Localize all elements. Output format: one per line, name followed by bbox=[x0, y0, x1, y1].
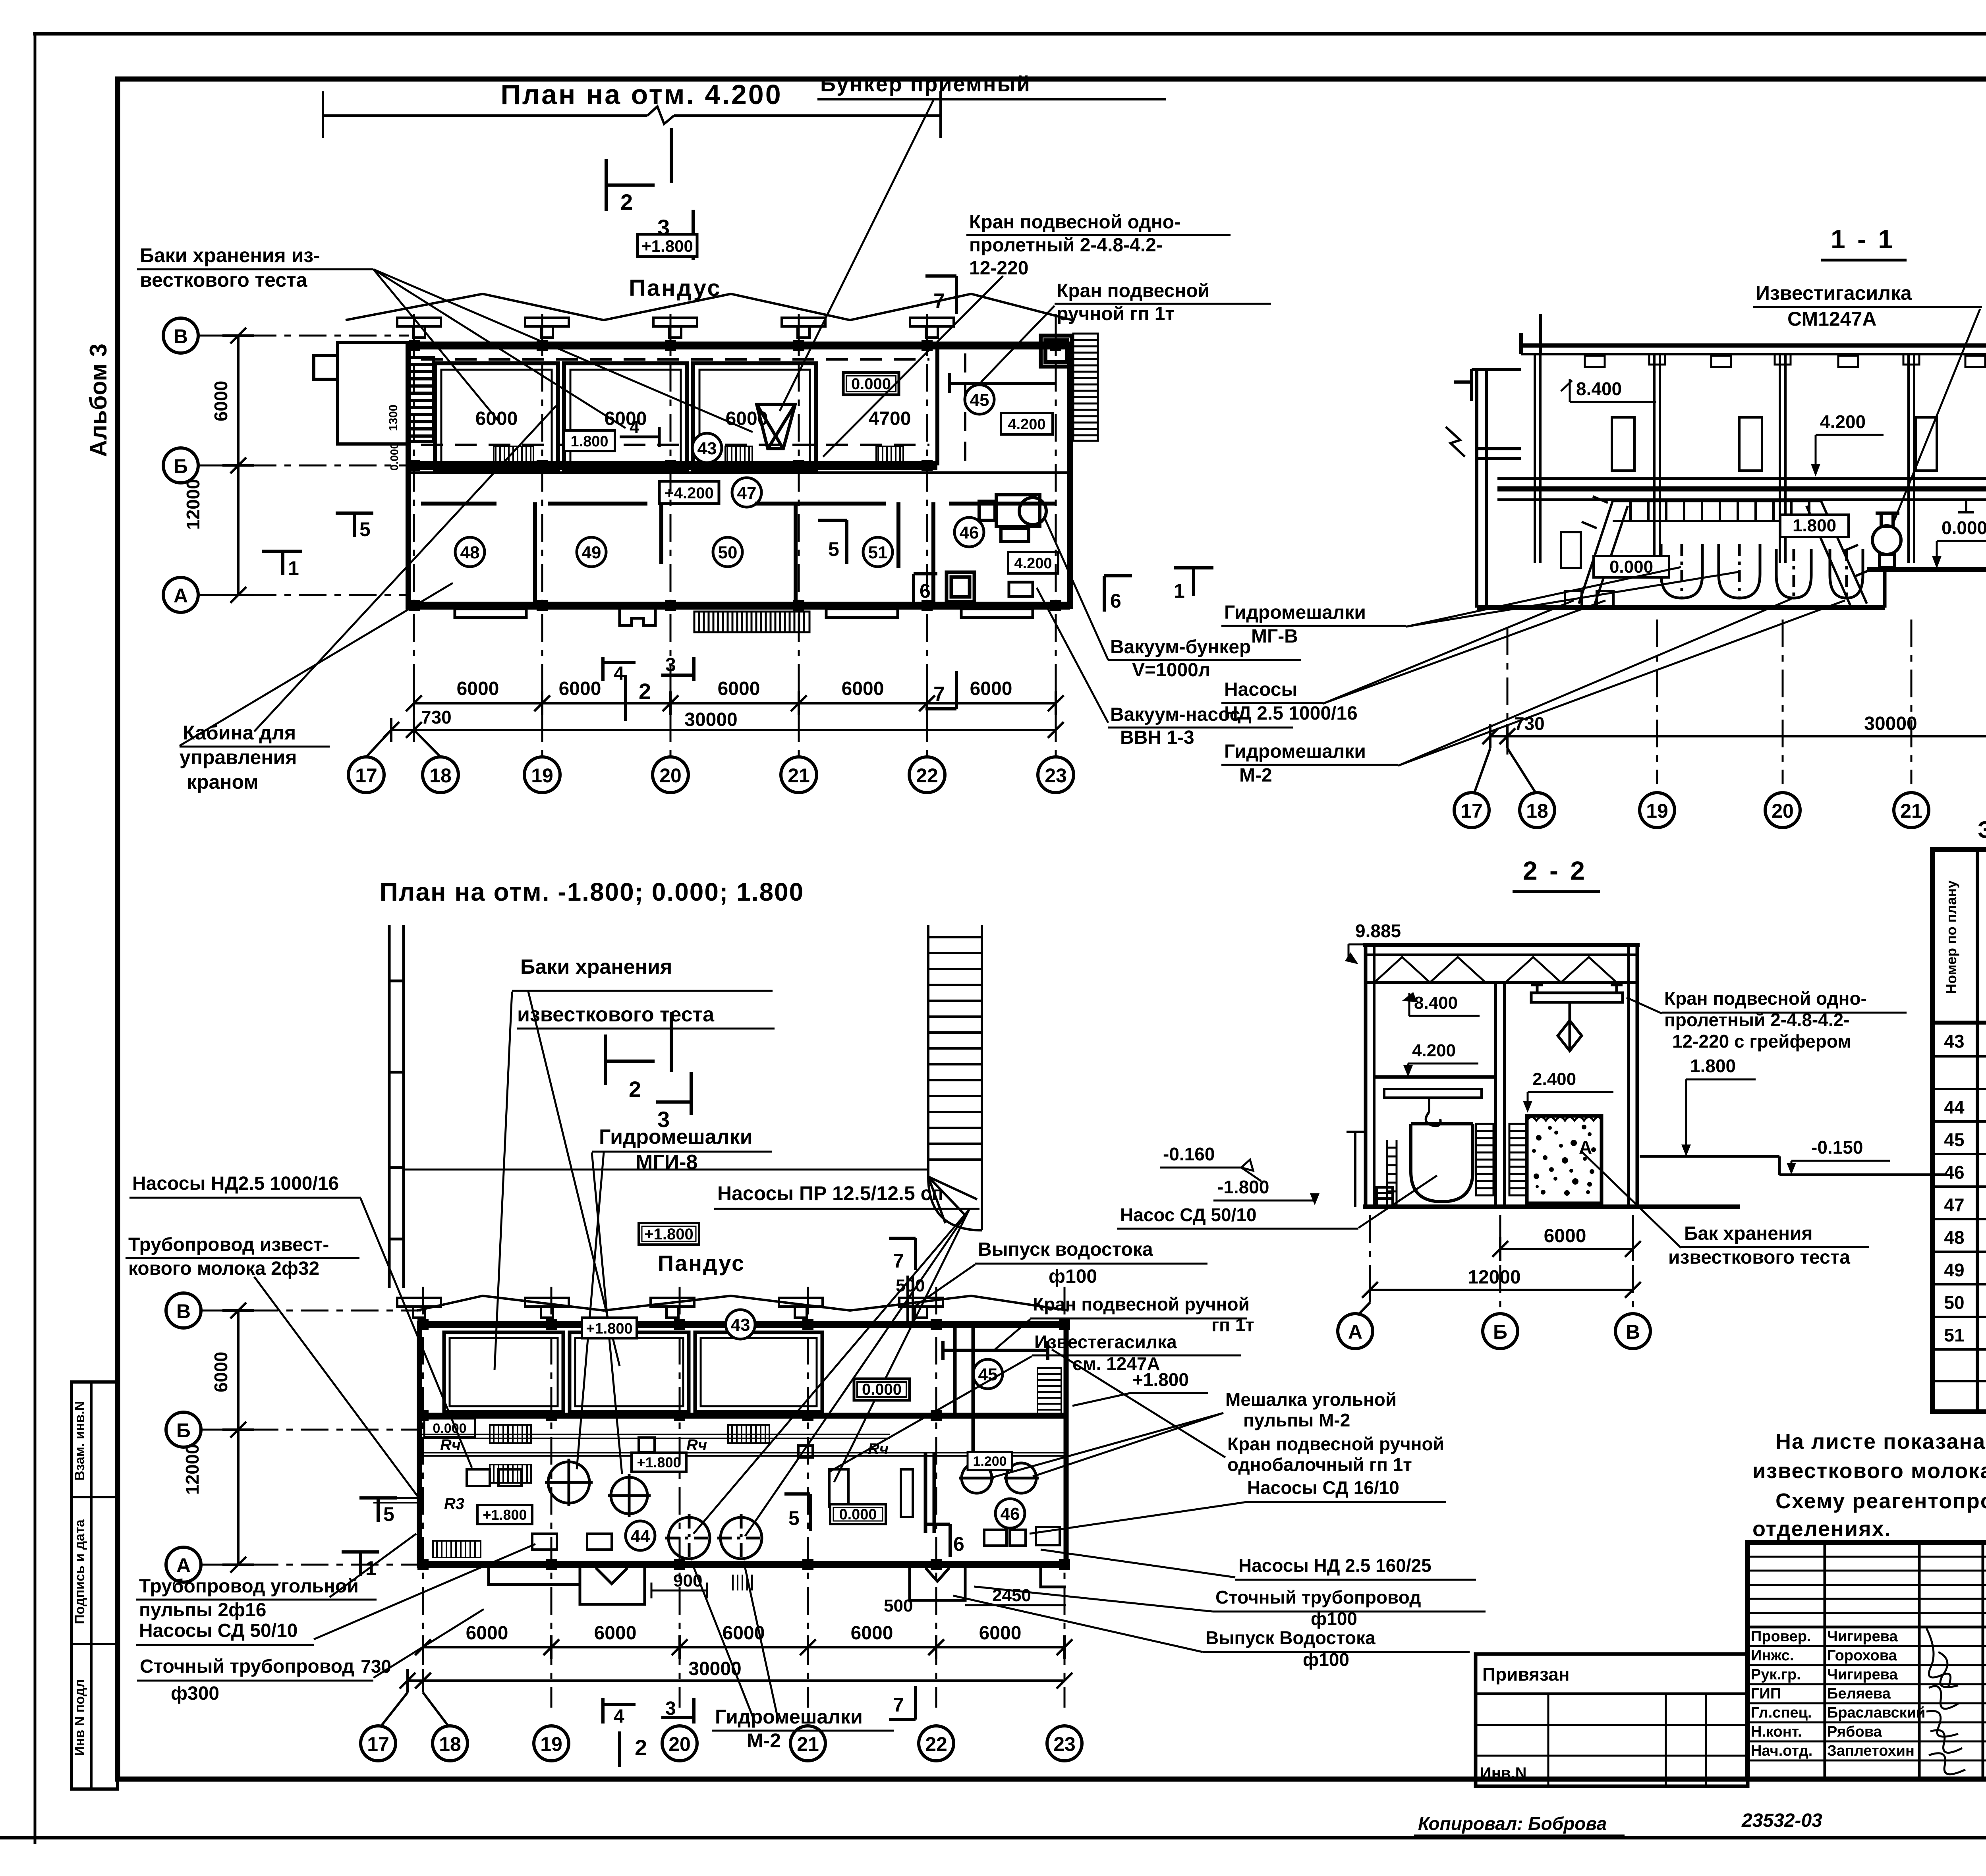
svg-text:45: 45 bbox=[1944, 1129, 1964, 1150]
dims bottom plan: bay dims bbox=[415, 1635, 1072, 1659]
svg-text:48: 48 bbox=[460, 543, 480, 562]
svg-text:Номер по плану: Номер по плану bbox=[1943, 880, 1959, 994]
svg-text:Б: Б bbox=[176, 1419, 191, 1442]
section marks 4 and 3 above dim bbox=[603, 657, 694, 681]
svg-text:Инв N подл: Инв N подл bbox=[72, 1679, 87, 1756]
svg-text:6000: 6000 bbox=[457, 678, 499, 699]
section left annex and wall bbox=[1454, 369, 1521, 608]
svg-text:Кран подвесной: Кран подвесной bbox=[1057, 280, 1209, 301]
svg-text:Насосы НД 2.5 160/25: Насосы НД 2.5 160/25 bbox=[1238, 1555, 1432, 1576]
svg-text:5: 5 bbox=[828, 538, 839, 560]
svg-text:17: 17 bbox=[367, 1733, 389, 1755]
svg-text:4: 4 bbox=[614, 1706, 624, 1727]
svg-text:На листе показана трасса реаге: На листе показана трасса реагентопроводо… bbox=[1775, 1430, 1986, 1453]
svg-text:9.885: 9.885 bbox=[1355, 921, 1401, 941]
section 2-2 walls bbox=[1363, 945, 1740, 1207]
svg-text:Известигасилка: Известигасилка bbox=[1756, 282, 1912, 304]
svg-text:7: 7 bbox=[893, 1250, 904, 1272]
svg-text:17: 17 bbox=[355, 764, 377, 787]
section columns bbox=[1535, 354, 1986, 563]
storage tank 2 (bottom plan) bbox=[570, 1332, 689, 1412]
room circle 43 bbox=[692, 433, 722, 463]
room circle 46 (bottom plan) bbox=[995, 1499, 1025, 1528]
svg-text:ВВН 1-3: ВВН 1-3 bbox=[1120, 727, 1194, 748]
svg-text:6: 6 bbox=[953, 1533, 964, 1555]
4.200 mid bbox=[1811, 411, 1884, 477]
svg-text:Взам. инв.N: Взам. инв.N bbox=[72, 1401, 87, 1480]
svg-text:Насосы СД 16/10: Насосы СД 16/10 bbox=[1247, 1477, 1399, 1498]
bottom annotation: Копировал Боброва bbox=[1414, 1813, 1625, 1835]
0.000 basement bbox=[1594, 556, 1669, 577]
svg-text:6000: 6000 bbox=[211, 381, 231, 421]
svg-text:Нач.отд.: Нач.отд. bbox=[1751, 1743, 1812, 1759]
label 9.885 bbox=[1345, 921, 1436, 964]
svg-text:А: А bbox=[176, 1554, 191, 1577]
label: Баки хранения известкового теста (bottom plan) bbox=[517, 955, 715, 1026]
platform at 1.800 with railing bbox=[1579, 496, 1869, 608]
label: Кран подвесной ручной гп 1т bbox=[1033, 1294, 1254, 1335]
label: Гидромешалки МГ-В (left) bbox=[1224, 602, 1366, 647]
grid circle 22 (top plan) bbox=[909, 757, 945, 793]
dark equipment square room45 bbox=[1041, 336, 1072, 367]
section roof bbox=[1521, 314, 1986, 354]
svg-text:весткового теста: весткового теста bbox=[140, 269, 308, 291]
vertical dimension line left of top plan bbox=[222, 328, 254, 603]
svg-text:Н.конт.: Н.конт. bbox=[1751, 1724, 1802, 1740]
receiving hopper funnel bbox=[757, 404, 795, 449]
letter circle В (bottom plan) bbox=[166, 1293, 201, 1328]
svg-text:Насосы СД 50/10: Насосы СД 50/10 bbox=[139, 1620, 298, 1641]
svg-text:50: 50 bbox=[1944, 1292, 1964, 1313]
svg-text:5: 5 bbox=[359, 518, 371, 540]
circle leaders 17,18 (bottom plan) bbox=[381, 1693, 449, 1727]
svg-text:В: В bbox=[1626, 1321, 1640, 1343]
svg-text:Заплетохин: Заплетохин bbox=[1827, 1743, 1915, 1759]
svg-text:Кран подвесной одно-: Кран подвесной одно- bbox=[1664, 988, 1867, 1009]
crane beam room45 (bottom) bbox=[943, 1341, 1048, 1360]
svg-text:23: 23 bbox=[1045, 764, 1067, 787]
label: Трубопровод угольной пульпы 2ф16 bbox=[139, 1576, 359, 1621]
left ramp wall above plan bbox=[389, 925, 404, 1288]
svg-text:21: 21 bbox=[797, 1733, 819, 1755]
svg-text:Горохова: Горохова bbox=[1827, 1647, 1897, 1664]
svg-text:46: 46 bbox=[960, 523, 979, 542]
left bay mid floor bbox=[1374, 1075, 1495, 1079]
svg-text:+1.800: +1.800 bbox=[641, 237, 693, 255]
svg-text:Кран подвесной ручной: Кран подвесной ручной bbox=[1227, 1434, 1444, 1454]
leaders to tanks bbox=[373, 269, 753, 432]
stairs hatch right of middle wall bbox=[1509, 1124, 1527, 1195]
svg-text:Известегасилка: Известегасилка bbox=[1034, 1332, 1177, 1352]
svg-text:пульпы 2ф16: пульпы 2ф16 bbox=[139, 1600, 266, 1621]
svg-text:0.000: 0.000 bbox=[851, 375, 891, 393]
svg-text:44: 44 bbox=[631, 1527, 650, 1546]
break mark lightning bbox=[1446, 427, 1465, 457]
grid vertical dash-dot lines top plan bbox=[414, 314, 1056, 757]
svg-text:6000: 6000 bbox=[726, 408, 768, 429]
grid circle 20 (top plan) bbox=[653, 757, 688, 793]
svg-text:Б: Б bbox=[174, 455, 188, 477]
svg-text:22: 22 bbox=[916, 764, 938, 787]
svg-text:Подпись и дата: Подпись и дата bbox=[72, 1519, 87, 1624]
grid circles (bottom plan) bbox=[361, 1726, 1082, 1761]
svg-text:12000: 12000 bbox=[183, 479, 203, 530]
svg-text:43: 43 bbox=[1944, 1031, 1964, 1052]
roof truss zigzag bbox=[1374, 957, 1617, 982]
boxed 1.200 bbox=[968, 1452, 1012, 1470]
svg-text:4.200: 4.200 bbox=[1008, 416, 1045, 433]
table rows bbox=[1944, 1031, 1986, 1345]
svg-text:1.800: 1.800 bbox=[1793, 516, 1836, 535]
bottom plan building walls bbox=[417, 1324, 1068, 1568]
lime paste storage tank 3 bbox=[693, 363, 816, 470]
svg-text:3: 3 bbox=[665, 654, 676, 676]
svg-text:18: 18 bbox=[429, 764, 452, 787]
svg-text:Провер.: Провер. bbox=[1751, 1628, 1811, 1645]
svg-text:А: А bbox=[1348, 1321, 1362, 1343]
svg-text:Чигирева: Чигирева bbox=[1827, 1628, 1898, 1645]
boxed level 4.200 room46 bbox=[1008, 552, 1058, 573]
svg-text:6000: 6000 bbox=[970, 678, 1012, 699]
svg-text:СМ1247А: СМ1247А bbox=[1787, 308, 1876, 330]
room circle 51 bbox=[863, 537, 893, 567]
dim 900 bbox=[651, 1583, 707, 1598]
svg-text:Рябова: Рябова bbox=[1827, 1724, 1882, 1740]
svg-text:12000: 12000 bbox=[1468, 1267, 1520, 1288]
label: Кран подвесной однопролетный с грейфером bbox=[1664, 988, 1867, 1052]
middle wall bbox=[1495, 982, 1505, 1207]
left bay crane beam with hook bbox=[1384, 1089, 1482, 1126]
svg-text:5: 5 bbox=[788, 1507, 800, 1529]
svg-text:22: 22 bbox=[925, 1733, 947, 1755]
crane rail brackets under roof bbox=[1585, 356, 1986, 367]
svg-text:0.000: 0.000 bbox=[862, 1381, 902, 1398]
svg-text:43: 43 bbox=[731, 1315, 750, 1335]
section mark 1 (left) bbox=[262, 551, 302, 575]
svg-text:730: 730 bbox=[361, 1656, 391, 1677]
svg-text:Сточный трубопровод: Сточный трубопровод bbox=[140, 1656, 354, 1677]
svg-text:730: 730 bbox=[421, 707, 452, 728]
right bay crane beam bbox=[1531, 985, 1623, 1051]
label: Выпуск водостока ф100 (top right of plan) bbox=[978, 1239, 1153, 1287]
svg-text:2: 2 bbox=[629, 1077, 641, 1102]
column squares bottom plan bbox=[417, 1319, 1070, 1570]
small equip under 4.200 bbox=[1009, 582, 1033, 596]
svg-text:3: 3 bbox=[665, 1698, 676, 1719]
svg-text:30000: 30000 bbox=[684, 709, 737, 730]
svg-text:Насос СД 50/10: Насос СД 50/10 bbox=[1120, 1204, 1257, 1225]
room circle 47 bbox=[732, 478, 761, 507]
svg-text:20: 20 bbox=[668, 1733, 691, 1755]
svg-text:Альбом 3: Альбом 3 bbox=[85, 344, 112, 457]
section mark 3 (top) bbox=[656, 210, 693, 260]
dashed partition room45 bbox=[964, 353, 966, 471]
svg-text:500: 500 bbox=[896, 1276, 925, 1295]
svg-text:М-2: М-2 bbox=[1239, 765, 1272, 786]
svg-text:Кран подвесной одно-: Кран подвесной одно- bbox=[969, 212, 1180, 233]
svg-text:Кран подвесной ручной: Кран подвесной ручной bbox=[1033, 1294, 1250, 1314]
basement small parts under 2-2 bbox=[1347, 1132, 1393, 1207]
svg-text:49: 49 bbox=[1944, 1260, 1964, 1280]
svg-text:4: 4 bbox=[630, 417, 639, 437]
section 1-1 grid dash-dot verticals bbox=[1507, 620, 1986, 784]
basement U vessels (hydro mixers) bbox=[1661, 544, 1863, 598]
svg-text:30000: 30000 bbox=[688, 1658, 741, 1679]
intermediate floor at +4.200 bbox=[1497, 479, 1986, 500]
boxed level 0.000 room45 bbox=[843, 372, 899, 395]
svg-text:1300: 1300 bbox=[387, 405, 400, 431]
svg-text:-1.800: -1.800 bbox=[1217, 1177, 1269, 1197]
upstairs equipment rectangles bbox=[1612, 417, 1986, 471]
tank room bottom wall bbox=[408, 461, 937, 470]
svg-text:Баки хранения из-: Баки хранения из- bbox=[140, 244, 320, 266]
svg-text:Выпуск Водостока: Выпуск Водостока bbox=[1206, 1627, 1376, 1648]
svg-text:46: 46 bbox=[1001, 1504, 1020, 1524]
storage tank 3 (bottom plan) bbox=[695, 1332, 822, 1412]
tank dimension texts bbox=[475, 408, 911, 429]
svg-text:6000: 6000 bbox=[723, 1623, 765, 1644]
svg-text:6000: 6000 bbox=[466, 1623, 508, 1644]
svg-text:В: В bbox=[176, 1300, 191, 1322]
dock notches below bottom wall bbox=[489, 1568, 1066, 1604]
svg-text:+1.800: +1.800 bbox=[644, 1226, 693, 1243]
svg-text:1.200: 1.200 bbox=[973, 1454, 1007, 1469]
grid circle 18 (top plan) bbox=[423, 757, 458, 793]
svg-text:Привязан: Привязан bbox=[1482, 1664, 1570, 1685]
svg-text:1: 1 bbox=[365, 1557, 377, 1579]
svg-text:47: 47 bbox=[737, 483, 757, 503]
svg-text:20: 20 bbox=[1772, 800, 1794, 822]
label: Вакуум-насос ВВН 1-3 bbox=[1110, 704, 1240, 748]
grid horizontal dash-dot (letters, bottom plan) bbox=[201, 1310, 421, 1565]
section marks 4,3 (bottom plan, bottom) bbox=[603, 1698, 694, 1724]
8.400 left bbox=[1561, 378, 1656, 402]
boxed +1.800 mid bbox=[632, 1453, 686, 1472]
svg-text:Сточный трубопровод: Сточный трубопровод bbox=[1215, 1587, 1421, 1608]
ground line right of 2-2 bbox=[1640, 1156, 1946, 1175]
svg-text:Пандус: Пандус bbox=[658, 1251, 745, 1276]
dark corner equipment room46 bbox=[947, 572, 974, 602]
svg-text:Баки хранения: Баки хранения bbox=[520, 955, 672, 979]
svg-text:Гидромешалки: Гидромешалки bbox=[1224, 602, 1366, 623]
svg-text:7: 7 bbox=[893, 1694, 904, 1716]
label: Сточный трубопровод ф300 bbox=[140, 1656, 354, 1704]
svg-text:49: 49 bbox=[582, 543, 601, 562]
pipe labels bbox=[440, 1436, 889, 1513]
svg-text:21: 21 bbox=[788, 764, 810, 787]
svg-text:2 - 2: 2 - 2 bbox=[1523, 856, 1587, 885]
svg-text:20: 20 bbox=[659, 764, 682, 787]
svg-text:краном: краном bbox=[187, 771, 258, 793]
section mark 6 (interior) bbox=[914, 574, 937, 608]
room circle 50 bbox=[713, 537, 742, 567]
grid circle leaders 17,18 bbox=[366, 730, 440, 757]
svg-text:12-220: 12-220 bbox=[969, 258, 1028, 279]
2.400 label bbox=[1523, 1069, 1613, 1113]
label: Трубопровод известкового молока 2ф32 bbox=[128, 1234, 329, 1279]
svg-text:Бункер приемный: Бункер приемный bbox=[820, 72, 1031, 96]
boxed 0.000 small left bbox=[424, 1419, 475, 1437]
svg-text:R3: R3 bbox=[444, 1495, 464, 1513]
svg-text:8.400: 8.400 bbox=[1414, 993, 1458, 1013]
canopy supports bbox=[397, 318, 954, 338]
grid horizontal dash-dot lines (letters) bbox=[199, 336, 409, 595]
room circle 48 bbox=[455, 537, 485, 567]
label: Мешалка угольной пульпы М-2 bbox=[1225, 1389, 1397, 1430]
dim 6000 (2-2) bbox=[1492, 1237, 1641, 1261]
svg-text:6000: 6000 bbox=[559, 678, 601, 699]
hatched ramp band with curve bbox=[928, 925, 982, 1230]
svg-text:кового молока 2ф32: кового молока 2ф32 bbox=[128, 1258, 319, 1279]
label: Кран подвесной однопролетный bbox=[969, 212, 1180, 279]
letter circle В (top plan) bbox=[163, 318, 198, 353]
boxed level 1.800 (corridor) bbox=[564, 430, 615, 451]
lime slaker circle bbox=[1872, 513, 1901, 568]
partition right of hall bbox=[925, 1324, 955, 1533]
svg-text:1: 1 bbox=[288, 557, 299, 579]
svg-text:19: 19 bbox=[1646, 800, 1668, 822]
canopy zigzag (bottom plan) bbox=[417, 1296, 1068, 1310]
svg-text:План на отм. 4.200: План на отм. 4.200 bbox=[500, 79, 782, 110]
svg-text:18: 18 bbox=[1526, 800, 1548, 822]
svg-text:Браславский: Браславский bbox=[1827, 1704, 1925, 1721]
wall column squares top bbox=[409, 340, 1061, 611]
left bay U vessel bbox=[1411, 1124, 1473, 1202]
note paragraph bbox=[1752, 1430, 1986, 1541]
entry steps below bottom wall bbox=[455, 609, 1033, 625]
svg-text:Рук.гр.: Рук.гр. bbox=[1751, 1666, 1801, 1683]
svg-text:+1.800: +1.800 bbox=[637, 1454, 681, 1471]
section title 2-2 bbox=[1513, 856, 1600, 892]
small equipment room46 (bottom) bbox=[984, 1527, 1060, 1546]
section title 1-1 bbox=[1821, 224, 1907, 260]
svg-text:7: 7 bbox=[933, 290, 945, 313]
boxed 0.000 mid right bbox=[830, 1504, 886, 1524]
svg-text:6: 6 bbox=[920, 580, 931, 602]
svg-text:известкового молока (R3)и угол: известкового молока (R3)и угольной пульп… bbox=[1752, 1459, 1986, 1483]
vacuum bunker machine in plan bbox=[979, 495, 1046, 542]
svg-text:50: 50 bbox=[718, 543, 738, 562]
boxed level +1.800 (ramp) bbox=[638, 234, 697, 257]
dim 12000 (2-2) bbox=[1362, 1278, 1641, 1302]
small pump rectangles bbox=[467, 1438, 913, 1550]
basement pedestals bbox=[1561, 532, 1613, 606]
room circle 43 (bottom plan) bbox=[726, 1310, 755, 1339]
svg-text:0.000: 0.000 bbox=[839, 1506, 877, 1523]
grid dash-dot verticals (bottom plan) bbox=[423, 1287, 1064, 1708]
svg-text:ф300: ф300 bbox=[171, 1683, 219, 1704]
lime paste storage tank 1 bbox=[435, 363, 558, 470]
svg-text:Гл.спец.: Гл.спец. bbox=[1751, 1704, 1812, 1721]
-0.150 label (2-2) bbox=[1787, 1137, 1890, 1175]
svg-text:ГИП: ГИП bbox=[1751, 1685, 1781, 1702]
bottom outside stairs hatch bbox=[694, 612, 809, 632]
lower band top wall segments bbox=[421, 502, 1057, 506]
1.800 (platform) bbox=[1780, 515, 1849, 537]
signature scribbles bbox=[1926, 1628, 1965, 1774]
svg-text:Насосы НД2.5 1000/16: Насосы НД2.5 1000/16 bbox=[132, 1173, 339, 1194]
svg-text:+1.800: +1.800 bbox=[483, 1507, 527, 1523]
svg-text:1 - 1: 1 - 1 bbox=[1831, 224, 1895, 254]
svg-text:Б: Б bbox=[1493, 1321, 1507, 1343]
svg-text:18: 18 bbox=[439, 1733, 461, 1755]
letter circle А (bottom plan) bbox=[166, 1547, 201, 1582]
svg-text:2: 2 bbox=[639, 679, 651, 704]
svg-text:пульпы М-2: пульпы М-2 bbox=[1243, 1410, 1350, 1430]
label: Выпуск Водостока ф100 bbox=[1206, 1627, 1376, 1670]
svg-text:43: 43 bbox=[697, 439, 717, 458]
svg-text:4.200: 4.200 bbox=[1820, 411, 1866, 432]
svg-text:23: 23 bbox=[1053, 1733, 1076, 1755]
svg-text:21: 21 bbox=[1900, 800, 1922, 822]
room circle 45 (bottom plan) bbox=[973, 1359, 1003, 1389]
section mark 7 (bottom right) bbox=[925, 671, 956, 709]
overall extent line with break bbox=[323, 91, 941, 138]
section mark 7 (bottom plan, top) bbox=[889, 1238, 916, 1270]
svg-text:В: В bbox=[174, 325, 188, 347]
svg-text:2: 2 bbox=[620, 189, 633, 214]
section mark 2 (dims) bbox=[624, 675, 627, 721]
Privyazan block bbox=[1476, 1654, 1748, 1786]
svg-text:19: 19 bbox=[531, 764, 553, 787]
right stairs strip bbox=[1073, 334, 1098, 441]
storage tank 1 (bottom plan) bbox=[444, 1332, 563, 1412]
svg-text:пролетный 2-4.8-4.2-: пролетный 2-4.8-4.2- bbox=[969, 235, 1163, 256]
boxed level 4.200 room45 bbox=[1001, 413, 1053, 434]
letter circle Б (top plan) bbox=[163, 448, 198, 483]
svg-text:5: 5 bbox=[383, 1503, 394, 1525]
svg-text:0.000: 0.000 bbox=[388, 443, 400, 471]
section 1-1 circle leaders bbox=[1474, 748, 1536, 793]
label: Вакуум-бункер V=1000л (plan) bbox=[1110, 637, 1251, 681]
section mark 7 (top right) bbox=[925, 276, 956, 314]
svg-text:Rч: Rч bbox=[686, 1436, 707, 1454]
svg-text:однобалочный гп 1т: однобалочный гп 1т bbox=[1227, 1454, 1412, 1475]
svg-text:План на отм. -1.800; 0.000; 1.: План на отм. -1.800; 0.000; 1.800 bbox=[380, 878, 804, 906]
svg-text:48: 48 bbox=[1944, 1227, 1964, 1248]
svg-text:Трубопровод угольной: Трубопровод угольной bbox=[139, 1576, 359, 1597]
corridor lower line bbox=[408, 471, 1070, 474]
section mark 6 (in plan) bbox=[925, 1524, 950, 1557]
grid circle 23 (top plan) bbox=[1038, 757, 1074, 793]
svg-text:+1.800: +1.800 bbox=[586, 1320, 632, 1337]
lower band partition walls bbox=[535, 345, 937, 606]
svg-text:ручной гп 1т: ручной гп 1т bbox=[1057, 303, 1175, 324]
column capitals bbox=[1649, 354, 1986, 365]
svg-text:-0.160: -0.160 bbox=[1163, 1144, 1215, 1164]
svg-text:А: А bbox=[174, 585, 188, 607]
section mark 7 (bottom plan, bottom) bbox=[889, 1686, 916, 1720]
svg-text:управления: управления bbox=[180, 746, 297, 768]
svg-text:23532-03: 23532-03 bbox=[1741, 1810, 1822, 1831]
boxed +1.800 over tanks bbox=[582, 1318, 637, 1338]
svg-text:6000: 6000 bbox=[211, 1352, 231, 1392]
label 1.800 with step to -0.150 bbox=[1681, 1056, 1756, 1156]
pipe lines R4/R3 bbox=[373, 1434, 1066, 1503]
svg-text:46: 46 bbox=[1944, 1162, 1964, 1183]
boxed level +4.200 corridor bbox=[659, 481, 719, 504]
svg-text:4: 4 bbox=[614, 663, 624, 684]
svg-text:М-2: М-2 bbox=[747, 1729, 781, 1752]
grid circle 19 (top plan) bbox=[524, 757, 560, 793]
svg-text:Мешалка угольной: Мешалка угольной bbox=[1225, 1389, 1397, 1410]
svg-text:Чигирева: Чигирева bbox=[1827, 1666, 1898, 1683]
section marks 5 and 1 (left, bottom plan) bbox=[359, 1498, 397, 1522]
corridor stair hatches bbox=[494, 446, 903, 465]
svg-text:Гидромешалки: Гидромешалки bbox=[599, 1125, 753, 1148]
svg-text:ф100: ф100 bbox=[1049, 1266, 1097, 1287]
svg-text:12000: 12000 bbox=[182, 1444, 203, 1495]
